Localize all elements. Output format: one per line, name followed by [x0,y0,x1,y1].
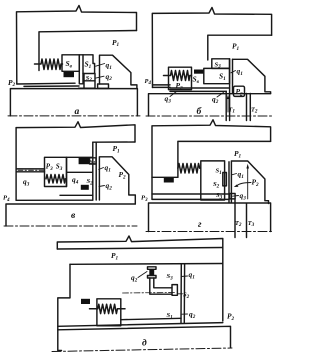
shaft [6,204,135,226]
leader q2 top [138,272,147,278]
drain notch [230,194,236,199]
svg-text:T2: T2 [251,107,258,115]
shaft axis [8,115,140,117]
svg-text:S1: S1 [216,168,223,176]
shaft [10,89,137,116]
spring box [97,299,121,326]
svg-text:б: б [197,106,203,117]
svg-text:S1: S1 [85,60,92,70]
svg-text:P4: P4 [3,195,10,203]
ring support lines [79,81,96,88]
leader q3 [233,195,239,198]
shaft axis [52,348,232,352]
secondary seal (black) [81,299,90,304]
chamber left wall [58,264,70,350]
svg-text:T1: T1 [229,107,236,115]
svg-text:P2: P2 [227,312,235,322]
gland block [233,59,271,93]
sleeve lines [152,194,229,199]
retainer box [67,157,93,186]
valve body (black) [149,269,154,275]
housing inner wall [208,35,272,60]
svg-text:P3: P3 [46,163,53,172]
leader q2 [217,93,224,98]
seal ring S2 [84,74,95,81]
leader q3 [170,92,177,97]
svg-text:г: г [198,220,202,230]
housing outer wall [152,8,271,88]
svg-text:S1: S1 [90,160,96,167]
svg-text:P2: P2 [252,178,260,188]
leader q1 [99,168,104,170]
shaft [149,203,271,232]
barrier fluid tube [17,169,45,172]
svg-text:q2: q2 [189,310,196,320]
housing inner wall [178,141,271,177]
svg-text:в: в [71,211,76,221]
leader q2 [95,76,104,78]
spring box [169,67,192,89]
svg-text:P1: P1 [234,149,242,159]
seal head box [201,161,225,200]
drain channel T1 [225,91,227,120]
housing bottom [58,323,223,327]
spring [46,175,65,184]
flow arrow channel T3 [247,167,249,199]
spring [164,71,192,81]
leader P2 with arrow [237,183,252,187]
seal ring S1 box [90,158,97,164]
seat bar [230,59,233,121]
svg-text:S3: S3 [56,163,63,172]
svg-text:q3: q3 [23,177,30,187]
secondary seal (black) [164,178,174,183]
svg-text:q1: q1 [189,270,196,280]
seal bottom lines [170,88,230,91]
gland block [100,55,137,88]
secondary seal upper (black) [79,158,90,164]
housing outer wall [17,6,137,85]
svg-text:q1: q1 [238,170,245,180]
spring [35,59,63,70]
duct [150,278,172,294]
svg-text:q1: q1 [237,67,244,77]
housing inner wall [39,31,137,71]
svg-text:P1: P1 [232,42,240,52]
svg-text:P2: P2 [119,170,127,180]
seal ring S1 (lower) [204,68,230,83]
center dash line [123,292,177,295]
housing inner wall [93,141,135,143]
sleeve line [24,85,79,87]
nose ring [223,173,227,186]
svg-text:S2: S2 [86,75,92,83]
valve bottom flange [148,276,157,279]
svg-text:S2: S2 [213,181,220,189]
svg-text:q3: q3 [240,191,247,201]
housing bottom flange [153,85,171,88]
svg-text:S3: S3 [167,273,174,281]
svg-text:Sв: Sв [66,59,73,69]
leader q1 [181,275,188,278]
spring [178,164,201,174]
svg-text:P1: P1 [112,38,120,48]
svg-text:q1: q1 [106,61,113,71]
svg-text:S1: S1 [219,72,226,82]
drive collar bars [79,55,83,84]
svg-text:д: д [142,338,147,349]
spring retainer box Sв [62,55,79,72]
secondary seal (black) [194,70,204,74]
leader q1 [96,64,105,67]
drain channel T2 [247,94,251,121]
leader q1 [232,174,237,175]
svg-text:q1: q1 [105,163,112,173]
gland block [99,157,135,204]
housing bottom flange [17,82,75,85]
seal ring S1 [83,55,95,74]
shaft [149,94,271,116]
svg-text:Sв: Sв [193,75,200,85]
svg-text:P1: P1 [113,144,121,154]
svg-text:P2: P2 [8,78,16,88]
leader q2 bottom [182,313,188,315]
svg-text:T2: T2 [235,220,242,228]
shaft top [58,326,231,348]
seat rings [93,142,96,200]
svg-text:T3: T3 [248,220,255,228]
face bars [181,264,185,323]
svg-text:P3: P3 [141,195,148,203]
drain channel B [246,204,248,238]
housing top band [57,236,223,321]
spring [90,304,126,313]
boxed label P2 [234,86,245,96]
chamber floor shelf [121,318,181,319]
seal ring S3 (upper step) [212,59,230,69]
seat bar [228,162,230,203]
secondary seal (black) [64,72,75,77]
housing outer wall [16,122,135,201]
spring box P3 S3 [45,157,67,186]
svg-text:q2: q2 [131,273,138,283]
gland block [231,161,268,204]
leader q2 [99,186,105,187]
shaft axis [146,115,272,117]
gland foot [98,84,109,88]
svg-text:P2: P2 [236,87,244,97]
svg-text:а: а [75,107,80,117]
leader q1 [231,71,236,73]
svg-text:q4: q4 [72,175,79,185]
svg-text:q2: q2 [106,72,113,82]
housing shelf [152,176,178,178]
valve top flange [148,267,157,270]
housing bottom [16,199,93,201]
shaft axis [4,225,137,227]
svg-text:P2: P2 [176,81,184,91]
svg-text:P4: P4 [145,78,152,86]
secondary seal lower (black) [81,185,89,190]
svg-text:P1: P1 [111,251,119,261]
housing outer wall [152,120,271,199]
duct end box [172,285,177,296]
sleeve line [60,194,93,196]
svg-text:q2: q2 [106,181,113,191]
flow arrow [227,97,229,112]
leader S2 [178,293,183,295]
shaft axis [146,231,272,233]
inner plate [70,263,223,266]
svg-text:q3: q3 [165,94,172,104]
drain channel A [234,199,236,238]
